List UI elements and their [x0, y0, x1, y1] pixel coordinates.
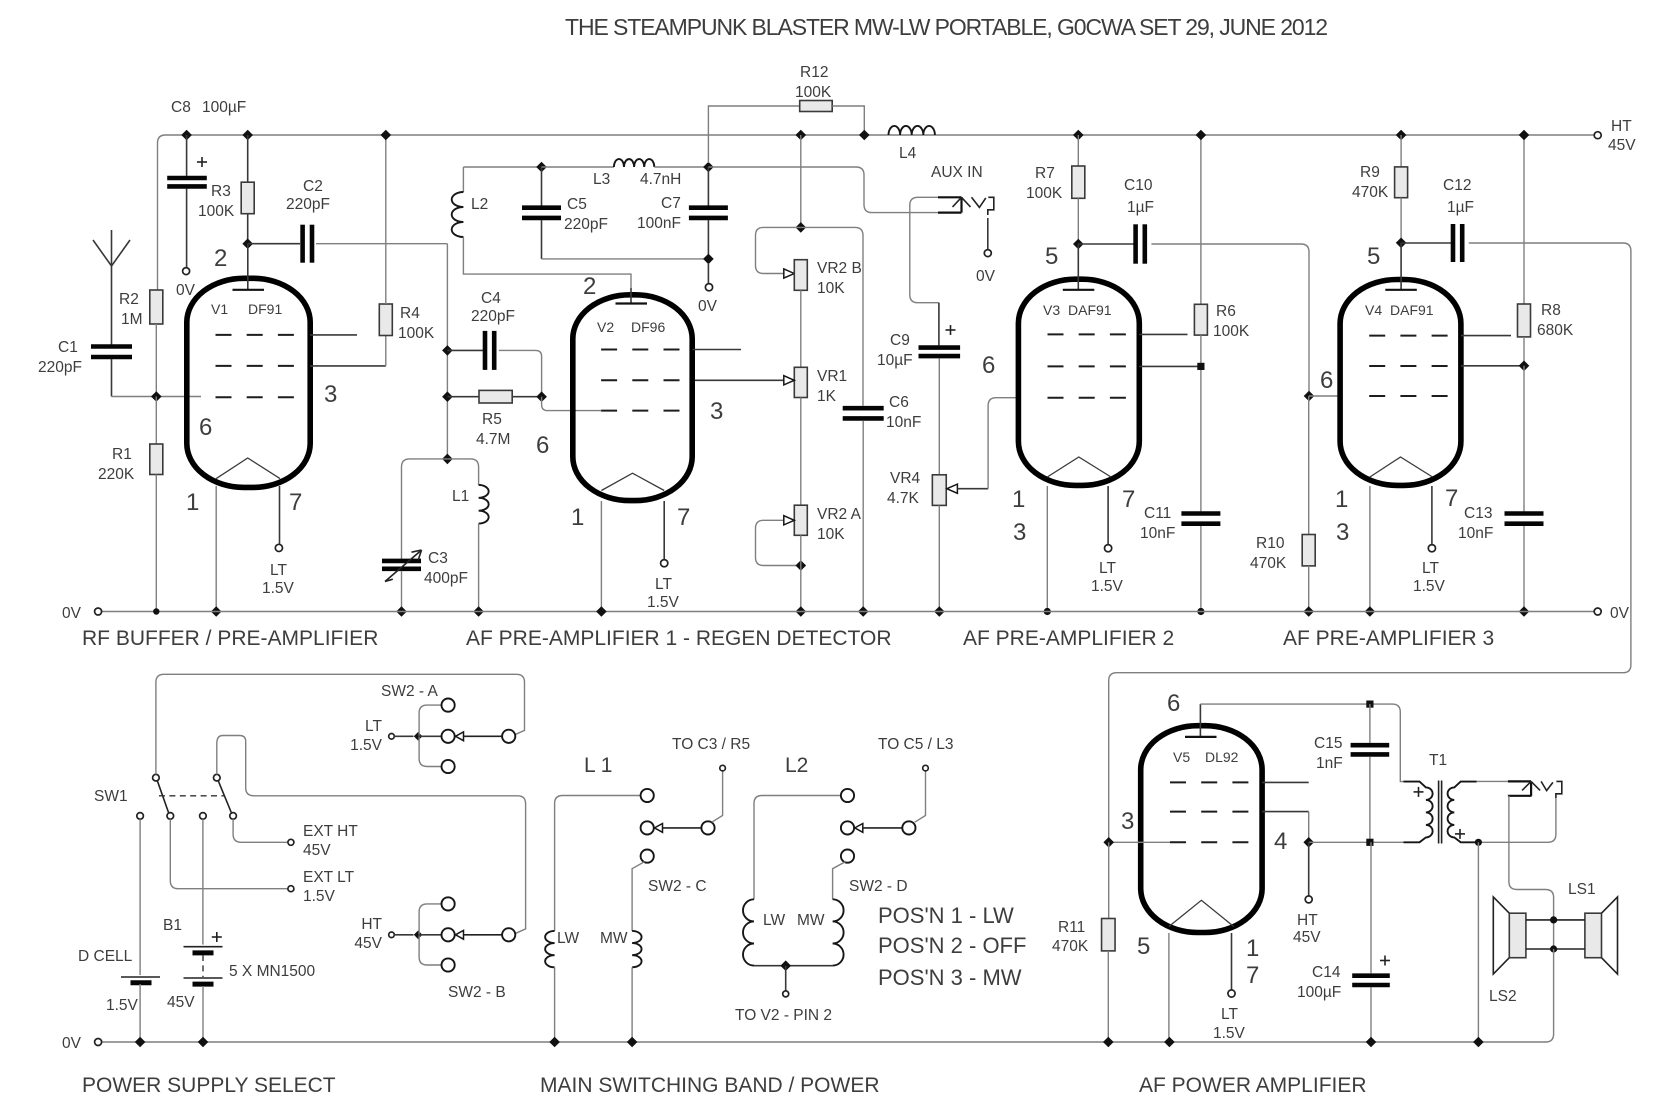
svg-text:5: 5 — [1137, 933, 1150, 960]
svg-text:R7: R7 — [1035, 165, 1055, 182]
svg-text:1.5V: 1.5V — [647, 594, 680, 611]
node HT/R4 — [381, 130, 392, 141]
svg-text:SW2 - A: SW2 - A — [381, 683, 439, 700]
tube V1 DF91 — [187, 278, 310, 487]
terminal TO C3/R5 — [720, 765, 726, 771]
node rail/R11 — [1103, 1037, 1114, 1048]
potentiometer VR2A 10K — [794, 505, 807, 535]
svg-text:B1: B1 — [163, 917, 182, 934]
wire to V2 grid pin6 — [542, 397, 601, 411]
svg-text:100K: 100K — [1026, 185, 1063, 202]
svg-text:R11: R11 — [1058, 919, 1085, 936]
svg-text:EXT LT: EXT LT — [303, 869, 355, 886]
svg-text:LT: LT — [270, 562, 287, 579]
svg-text:4.7M: 4.7M — [476, 431, 510, 448]
svg-text:TO V2 - PIN 2: TO V2 - PIN 2 — [735, 1007, 832, 1024]
T1 core — [1438, 781, 1440, 844]
potentiometer VR4 4.7K — [932, 475, 946, 506]
svg-text:3: 3 — [324, 381, 337, 408]
svg-text:C4: C4 — [481, 290, 501, 307]
svg-text:THE STEAMPUNK BLASTER MW-LW PO: THE STEAMPUNK BLASTER MW-LW PORTABLE, G0… — [565, 14, 1327, 40]
node L2 common — [780, 960, 791, 971]
wire pin4 HT line — [1309, 841, 1404, 843]
V3 diode stub row1 — [1139, 333, 1187, 335]
node rail/C14 — [1366, 1037, 1377, 1048]
svg-text:LT: LT — [1422, 560, 1439, 577]
svg-text:10µF: 10µF — [877, 352, 913, 369]
svg-text:4.7nH: 4.7nH — [640, 171, 681, 188]
svg-text:220pF: 220pF — [564, 216, 608, 233]
V1 anode plate pin2 — [247, 244, 249, 290]
node rail/L1 — [473, 606, 484, 617]
inductor L3 4.7nH — [614, 159, 654, 167]
svg-text:AF POWER AMPLIFIER: AF POWER AMPLIFIER — [1139, 1074, 1367, 1097]
V4 pin7 wire — [1431, 486, 1433, 545]
node C7 top — [703, 162, 714, 173]
V1 grid dashes row1 — [216, 334, 296, 336]
V2 grid dashes row3 — [601, 410, 681, 412]
svg-text:6: 6 — [1167, 690, 1180, 717]
svg-text:MW: MW — [600, 930, 628, 947]
node speakers top — [1550, 916, 1557, 923]
svg-text:100K: 100K — [198, 203, 235, 220]
svg-text:1M: 1M — [121, 311, 143, 328]
node VR2A bottom — [796, 560, 807, 571]
tube V3 DAF91 — [1018, 279, 1139, 485]
SW2-A common wire — [394, 735, 413, 737]
resistor R4 100K — [379, 304, 392, 336]
node SW2-A — [414, 732, 423, 741]
tube V5 DL92 — [1141, 726, 1262, 933]
node L1/C3 — [442, 454, 453, 465]
SW2-D contact pos3 — [841, 850, 854, 863]
resistor R10 470K — [1308, 396, 1310, 535]
terminal EXT HT 45V — [288, 839, 294, 845]
node HT/R6 — [1196, 130, 1207, 141]
svg-text:C15: C15 — [1314, 735, 1342, 752]
node HT/R9 — [1396, 130, 1407, 141]
node rail/V2 pin1 — [596, 606, 607, 617]
V5 grid dashes row2 — [1170, 811, 1250, 813]
node secondary bottom — [1475, 839, 1482, 846]
svg-text:10K: 10K — [817, 526, 845, 543]
svg-text:100K: 100K — [398, 325, 435, 342]
wire HT rail 45V — [158, 135, 1595, 290]
svg-text:3: 3 — [1121, 808, 1134, 835]
svg-text:7: 7 — [1246, 962, 1259, 989]
SW1 pole1 contact — [153, 774, 160, 781]
svg-text:R10: R10 — [1256, 535, 1285, 552]
SW1 pole2 contact — [214, 774, 221, 781]
svg-text:1µF: 1µF — [1127, 199, 1154, 216]
speaker LS2 — [1509, 913, 1526, 958]
svg-text:C5: C5 — [567, 196, 587, 213]
V4 grid dashes row1 — [1369, 335, 1449, 337]
wire tank top — [463, 166, 541, 168]
svg-text:EXT HT: EXT HT — [303, 823, 358, 840]
wire VR2B to VR1 — [800, 290, 802, 367]
svg-text:RF BUFFER / PRE-AMPLIFIER: RF BUFFER / PRE-AMPLIFIER — [82, 627, 378, 650]
resistor R3 100K — [247, 135, 249, 182]
svg-text:45V: 45V — [354, 935, 382, 952]
wire 0V rail — [102, 611, 1595, 613]
svg-text:2: 2 — [214, 245, 227, 272]
svg-text:1µF: 1µF — [1447, 199, 1474, 216]
wire V5 screen row2 — [1262, 811, 1309, 813]
svg-text:POS'N 3 - MW: POS'N 3 - MW — [878, 965, 1022, 990]
wire V5 pin6 to T1 — [1200, 704, 1420, 782]
node rail/R10 — [1303, 606, 1314, 617]
node V4 grid — [1304, 391, 1315, 402]
V5 anode plate pin6 — [1199, 704, 1201, 737]
node V4 pin5 — [1396, 238, 1407, 249]
SW1 contact D-cell — [137, 813, 144, 820]
node C5 top — [536, 162, 547, 173]
node rail/C3 — [396, 606, 407, 617]
terminal EXT LT 1.5V — [288, 886, 294, 892]
svg-text:LT: LT — [655, 576, 672, 593]
svg-text:5: 5 — [1367, 243, 1380, 270]
SW2-C wiper — [655, 824, 663, 833]
wire SW2-C pole to terminal — [712, 771, 723, 822]
svg-text:V1: V1 — [211, 301, 228, 317]
V1 filament — [216, 458, 280, 479]
wire V3 anode row2 — [1139, 365, 1201, 367]
svg-text:4.7K: 4.7K — [887, 490, 920, 507]
svg-text:100µF: 100µF — [202, 99, 246, 116]
capacitor C14 100uF — [1370, 842, 1372, 973]
svg-text:1.5V: 1.5V — [303, 888, 336, 905]
svg-text:LS1: LS1 — [1568, 881, 1596, 898]
svg-text:0V: 0V — [176, 282, 196, 299]
capacitor C5 220pF — [541, 167, 543, 206]
wire V4 anode row2 — [1461, 365, 1524, 367]
svg-text:VR2 B: VR2 B — [817, 260, 862, 277]
svg-text:R1: R1 — [112, 446, 132, 463]
wire SW2-C pos3 to MW coil — [632, 862, 644, 931]
wire jack sleeve to secondary — [1482, 798, 1556, 842]
svg-text:L4: L4 — [899, 145, 917, 162]
inductor L2 LW winding — [743, 899, 754, 965]
svg-text:R4: R4 — [400, 305, 420, 322]
node R5 left — [442, 391, 453, 402]
svg-text:220pF: 220pF — [471, 308, 515, 325]
svg-text:D CELL: D CELL — [78, 948, 133, 965]
svg-text:1: 1 — [1246, 935, 1259, 962]
wire C2 to tank — [446, 244, 448, 459]
svg-text:DAF91: DAF91 — [1390, 302, 1434, 318]
svg-text:C3: C3 — [428, 550, 448, 567]
node V1 pin2 — [242, 238, 253, 249]
SW2-A contact pos2 — [442, 730, 455, 743]
terminal 0V (C8) — [183, 268, 190, 275]
svg-text:1.5V: 1.5V — [1213, 1025, 1246, 1042]
svg-text:10nF: 10nF — [1458, 525, 1493, 542]
svg-text:LT: LT — [1221, 1006, 1238, 1023]
inductor L1 — [447, 459, 478, 485]
node rail/C11 — [1197, 608, 1204, 615]
svg-text:45V: 45V — [1608, 137, 1636, 154]
svg-text:5 X MN1500: 5 X MN1500 — [229, 963, 316, 980]
V5 grid wire pin3 — [1109, 841, 1170, 843]
node rail/V1 pin1 — [211, 606, 222, 617]
wire V1 pin3 to R4 — [310, 365, 386, 367]
node HT/R8 — [1519, 130, 1530, 141]
svg-text:1: 1 — [1335, 486, 1348, 513]
svg-text:AF PRE-AMPLIFIER 1 - REGEN DET: AF PRE-AMPLIFIER 1 - REGEN DETECTOR — [466, 627, 892, 650]
wire speakers bottom — [1526, 948, 1585, 950]
SW2-D wiper — [855, 824, 863, 833]
node rail/secondary — [1473, 1037, 1484, 1048]
svg-text:V2: V2 — [597, 319, 614, 335]
node rail/R1 — [153, 608, 159, 614]
svg-text:1nF: 1nF — [1316, 755, 1343, 772]
V2 anode plate pin2 — [630, 288, 632, 304]
SW2-B pole — [502, 928, 515, 941]
node C7 bottom — [703, 254, 714, 265]
node V3 pin5 — [1073, 239, 1084, 250]
resistor R5 4.7M — [447, 396, 479, 398]
inductor L2 MW winding — [833, 899, 844, 965]
svg-text:45V: 45V — [167, 994, 195, 1011]
svg-text:L3: L3 — [593, 171, 610, 188]
capacitor C13 10nF — [1523, 366, 1525, 512]
terminal LT (V2) — [661, 560, 668, 567]
node rail/C6 — [858, 606, 869, 617]
node rail/C13 — [1519, 606, 1530, 617]
tube V4 DAF91 — [1340, 280, 1461, 486]
wire secondary bottom to rail — [1477, 842, 1479, 1042]
svg-text:SW2 - B: SW2 - B — [448, 984, 506, 1001]
svg-text:AUX IN: AUX IN — [931, 164, 983, 181]
HT terminal — [1594, 132, 1601, 139]
wire VR1 to VR2A — [800, 398, 802, 506]
V5 pin1/7 wire — [1231, 933, 1233, 990]
SW2-B contact pos2 — [442, 928, 455, 941]
svg-text:470K: 470K — [1250, 555, 1287, 572]
svg-text:LW: LW — [557, 930, 579, 947]
svg-text:R12: R12 — [800, 64, 828, 81]
svg-text:400pF: 400pF — [424, 570, 468, 587]
terminal LT 1.5V feed — [389, 734, 395, 740]
resistor R6 100K — [1200, 135, 1202, 304]
VR2B wiper loop — [756, 227, 801, 273]
svg-text:6: 6 — [982, 352, 995, 379]
V4 grid dashes row3 — [1369, 395, 1449, 397]
node C15 top — [1366, 701, 1373, 708]
svg-text:100K: 100K — [795, 84, 832, 101]
wire L2 to V2 pin2 — [463, 237, 631, 288]
SW1 contact EXT-LT — [167, 813, 174, 820]
wire LW coil to SW2-C pos1 — [555, 796, 641, 931]
svg-text:220pF: 220pF — [38, 359, 82, 376]
node VR2B top — [796, 222, 807, 233]
svg-text:6: 6 — [1320, 367, 1333, 394]
V4 anode plate pin5 — [1400, 243, 1402, 290]
svg-text:0V: 0V — [976, 268, 996, 285]
svg-text:VR2 A: VR2 A — [817, 506, 862, 523]
SW2-B bracket — [419, 904, 441, 965]
SW2-B contact pos1 — [442, 897, 455, 910]
V4 grid dashes row2 — [1369, 365, 1449, 367]
node rail/L1 LW — [549, 1037, 560, 1048]
SW2-D contact pos1 — [841, 789, 854, 802]
T1 primary — [1404, 782, 1433, 843]
resistor R1 220K — [155, 397, 157, 445]
svg-text:6: 6 — [199, 414, 212, 441]
inductor L1 LW winding — [545, 931, 554, 967]
svg-text:HT: HT — [361, 916, 382, 933]
wire AUX tip to C9 — [910, 197, 939, 302]
SW1 contact EXT-HT — [230, 813, 237, 820]
svg-text:R8: R8 — [1541, 302, 1561, 319]
resistor R2 1M — [150, 290, 163, 324]
svg-text:R6: R6 — [1216, 303, 1236, 320]
svg-text:C14: C14 — [1312, 964, 1341, 981]
terminal LT (V4) — [1428, 545, 1435, 552]
svg-text:10K: 10K — [817, 280, 845, 297]
svg-text:T1: T1 — [1429, 752, 1447, 769]
svg-text:2: 2 — [583, 273, 596, 300]
resistor R9 470K — [1400, 135, 1402, 167]
svg-text:R5: R5 — [482, 411, 502, 428]
inductor L1 MW winding — [632, 931, 641, 967]
wire SW2-D pos3 to MW coil — [833, 862, 846, 900]
svg-text:LW: LW — [763, 912, 785, 929]
wire EXT HT — [233, 819, 287, 842]
V5 filament — [1169, 900, 1234, 926]
wire to V4 grid — [1309, 395, 1340, 397]
V2 pin7 wire — [663, 501, 665, 560]
svg-text:1: 1 — [186, 489, 199, 516]
V3 grid dashes row2 — [1048, 365, 1128, 367]
V4 pin1 wire — [1369, 486, 1371, 612]
svg-text:C9: C9 — [890, 332, 910, 349]
inductor L2 tank — [462, 167, 464, 192]
svg-text:HT: HT — [1611, 118, 1632, 135]
terminal HT 45V feed — [389, 932, 395, 938]
svg-text:DL92: DL92 — [1205, 749, 1239, 765]
svg-text:100µF: 100µF — [1297, 984, 1341, 1001]
node rail/V5 pin5 — [1164, 1037, 1175, 1048]
V5 screen stub row1 — [1262, 781, 1309, 783]
svg-text:C1: C1 — [58, 339, 78, 356]
svg-text:3: 3 — [1013, 519, 1026, 546]
capacitor C7 100nF — [707, 167, 709, 206]
svg-text:10nF: 10nF — [1140, 525, 1175, 542]
svg-text:L1: L1 — [452, 488, 469, 505]
svg-text:SW2 - C: SW2 - C — [648, 878, 707, 895]
svg-text:C8: C8 — [171, 99, 191, 116]
svg-text:1: 1 — [571, 504, 584, 531]
svg-text:LS2: LS2 — [1489, 988, 1517, 1005]
node C15 bottom — [1366, 839, 1373, 846]
terminal LT (V1) — [275, 544, 282, 551]
V3 pin7 wire — [1107, 486, 1109, 545]
svg-text:L2: L2 — [471, 196, 488, 213]
capacitor C3 400pF variable — [382, 559, 421, 564]
node HT/R7 — [1073, 130, 1084, 141]
svg-text:R2: R2 — [119, 291, 139, 308]
svg-text:MAIN SWITCHING BAND / POWER: MAIN SWITCHING BAND / POWER — [540, 1074, 880, 1097]
svg-text:5: 5 — [1045, 243, 1058, 270]
SW2-A wiper — [456, 732, 464, 741]
wire MW to rail — [631, 967, 633, 1042]
svg-text:C11: C11 — [1144, 505, 1171, 522]
wire B1 to SW1 — [202, 819, 204, 944]
V2 grid dashes row2 — [601, 379, 681, 381]
svg-text:3: 3 — [710, 398, 723, 425]
antenna — [111, 230, 113, 346]
wire VR2A to rail — [800, 535, 802, 611]
SW2-C contact pos3 — [641, 850, 654, 863]
resistor R11 470K — [1108, 842, 1110, 918]
T1 secondary — [1448, 782, 1477, 843]
svg-text:100nF: 100nF — [637, 215, 681, 232]
svg-text:0V: 0V — [1610, 605, 1630, 622]
svg-text:6: 6 — [536, 432, 549, 459]
SW2-A bracket — [419, 705, 441, 766]
node HT/R3 — [242, 130, 253, 141]
svg-text:VR4: VR4 — [890, 470, 921, 487]
terminal LT (V3) — [1105, 545, 1112, 552]
svg-text:220pF: 220pF — [286, 196, 330, 213]
node SW2-B — [414, 931, 423, 940]
V3 grid dashes row1 — [1048, 333, 1128, 335]
terminal 0V right — [1594, 608, 1601, 615]
VR4 wiper to V3 grid — [947, 484, 958, 493]
svg-text:1.5V: 1.5V — [106, 997, 139, 1014]
SW2-C contact pos2 — [641, 821, 654, 834]
svg-text:POWER SUPPLY SELECT: POWER SUPPLY SELECT — [82, 1074, 336, 1097]
svg-text:V4: V4 — [1365, 302, 1382, 318]
V1 pin7 wire — [279, 486, 281, 544]
node V3 anode — [1197, 363, 1204, 370]
node rail/V3 pin1 — [1044, 608, 1051, 615]
resistor R7 100K — [1077, 135, 1079, 166]
wire SW1 pole1 to LT feed — [156, 674, 525, 774]
V3 anode plate pin5 — [1077, 244, 1079, 290]
wire L2 windings common — [754, 965, 833, 967]
svg-text:AF PRE-AMPLIFIER 3: AF PRE-AMPLIFIER 3 — [1283, 627, 1494, 650]
node HT/VR2B branch — [796, 130, 807, 141]
V2 anode stub row1 — [693, 349, 742, 351]
svg-text:220K: 220K — [98, 466, 135, 483]
node rail/VR2A — [796, 606, 807, 617]
svg-text:VR1: VR1 — [817, 368, 847, 385]
SW2-A contact pos3 — [442, 760, 455, 773]
V5 grid dashes row3 — [1170, 841, 1250, 843]
svg-text:V3: V3 — [1043, 302, 1060, 318]
VR1 wiper from V2 pin3 — [693, 379, 784, 381]
svg-text:470K: 470K — [1352, 184, 1389, 201]
wire SW2-D pole to terminal — [915, 771, 926, 822]
wire speakers top — [1526, 919, 1585, 921]
svg-text:DAF91: DAF91 — [1068, 302, 1112, 318]
svg-text:10nF: 10nF — [886, 414, 921, 431]
wire C5 to L3 — [542, 166, 614, 168]
jack AUX IN — [938, 196, 962, 198]
svg-text:7: 7 — [1122, 486, 1135, 513]
wire C5 bottom — [542, 258, 709, 260]
svg-text:R3: R3 — [211, 183, 231, 200]
node V5 grid — [1103, 837, 1114, 848]
terminal HT 45V (V5) — [1308, 842, 1310, 896]
svg-text:1: 1 — [1012, 486, 1025, 513]
V5 pin5 wire — [1168, 933, 1170, 1042]
C3 bottom wire — [401, 571, 403, 612]
capacitor C6 10nF — [843, 406, 884, 411]
